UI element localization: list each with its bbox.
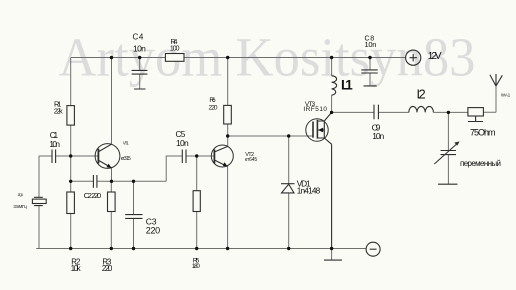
svg-text:180: 180 [192,263,200,270]
svg-text:C2 220: C2 220 [84,191,102,200]
svg-text:10n: 10n [133,44,146,54]
svg-text:10n: 10n [372,131,384,141]
svg-text:10n: 10n [176,138,189,148]
svg-text:220: 220 [102,264,113,273]
svg-text:10n: 10n [49,139,60,149]
svg-text:100: 100 [170,45,180,52]
svg-text:10n: 10n [365,40,377,49]
svg-text:75Ohm: 75Ohm [470,127,496,137]
svg-text:кт645: кт645 [245,157,258,163]
svg-text:10k: 10k [71,264,81,273]
svg-text:ZQ1: ZQ1 [18,193,24,197]
svg-text:кт315: кт315 [121,156,131,162]
svg-text:переменный: переменный [460,159,501,168]
svg-text:VT1: VT1 [123,140,129,145]
svg-text:WA1: WA1 [501,92,511,97]
svg-text:L1: L1 [341,77,353,92]
svg-text:R6: R6 [209,97,216,104]
svg-text:IRF510: IRF510 [303,106,327,113]
svg-text:3.5МГц: 3.5МГц [13,204,27,209]
svg-text:220: 220 [209,104,218,111]
svg-text:220: 220 [146,225,161,235]
svg-text:C4: C4 [133,32,144,41]
svg-text:22k: 22k [54,107,63,116]
svg-text:12V: 12V [428,51,442,62]
svg-text:1n4148: 1n4148 [297,186,321,196]
svg-text:L2: L2 [417,87,426,101]
